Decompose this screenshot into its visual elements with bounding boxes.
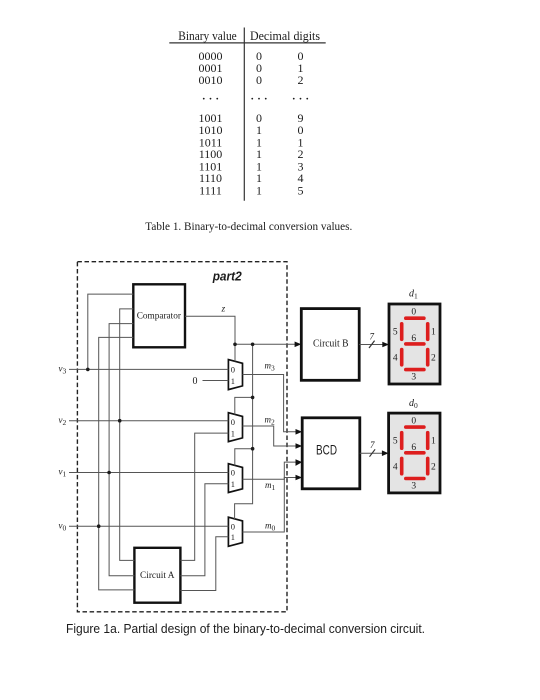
mux M0 [228,517,242,546]
svg-text:Decimal digits: Decimal digits [250,28,320,43]
svg-text:0: 0 [231,522,235,532]
bus slash BCD [370,449,376,456]
wire circuit A out1 to M2 [180,433,228,560]
svg-text:Figure 1a. Partial design of t: Figure 1a. Partial design of the binary-… [66,622,425,636]
seven-seg display d1 [389,304,440,384]
junction v0 [97,524,101,528]
svg-text:1: 1 [231,532,235,542]
arrow into BCD in1 [296,459,303,466]
wire circuit B to display d1 [359,344,384,346]
d1 segment 4 [400,350,404,365]
wire v2 to comparator and circuit A [120,309,135,561]
svg-text:6: 6 [411,443,416,453]
table column divider [243,28,245,201]
svg-text:1: 1 [431,328,436,338]
svg-text:0010: 0010 [199,73,223,87]
wire v3 input [69,368,228,370]
svg-text:Circuit B: Circuit B [313,339,349,350]
svg-text:4: 4 [393,462,398,472]
svg-text:1: 1 [256,183,262,197]
wire v1 input [69,472,228,474]
svg-text:3: 3 [411,481,416,491]
d0 segment 1 [426,433,430,449]
table rows [199,49,313,197]
wire m0 to BCD [243,478,297,533]
arrow into BCD in3 [296,429,303,435]
arrow into BCD in2 [296,443,303,449]
junction v2 [118,419,122,423]
svg-text:Binary value: Binary value [178,28,237,43]
arrow into circuit B [295,342,302,348]
circuit B [301,309,359,381]
svg-text:0: 0 [193,376,198,387]
wire BCD to display d0 [360,452,384,454]
svg-text:0: 0 [231,365,235,375]
svg-text:5: 5 [298,183,304,197]
svg-text:...: ... [292,88,312,104]
wire v3 to comparator [88,294,134,369]
svg-text:2: 2 [298,73,304,87]
dashed box part2 [77,262,287,612]
circuit A [134,548,180,603]
d0 segment 0 [406,425,424,429]
svg-text:4: 4 [393,353,398,363]
svg-text:6: 6 [411,334,416,344]
d0 segment 6 [406,451,424,455]
svg-text:Table 1. Binary-to-decimal con: Table 1. Binary-to-decimal conversion va… [145,219,352,233]
svg-text:...: ... [202,88,222,104]
mux M1 [228,464,242,493]
wire v0 input [69,525,228,527]
bus slash circuit B [369,341,375,348]
svg-text:0: 0 [231,468,235,478]
svg-text:Circuit A: Circuit A [140,571,175,581]
comparator [133,284,185,347]
wire v0 to comparator and circuit A [99,337,135,590]
d1 segment 0 [406,316,424,320]
svg-text:3: 3 [411,372,416,382]
svg-text:7: 7 [370,440,375,450]
svg-text:BCD: BCD [316,441,337,457]
svg-text:0: 0 [411,417,416,427]
arrow into display d1 [382,342,389,348]
junction v1 [107,471,111,475]
mux M3 [228,360,242,390]
d1 segment 5 [400,324,404,340]
svg-text:2: 2 [431,353,436,363]
svg-text:1111: 1111 [199,183,222,197]
svg-text:2: 2 [431,462,436,472]
svg-text:z: z [221,305,226,315]
d0 segment 2 [426,458,430,473]
wire m2 to BCD [243,426,297,446]
svg-text:...: ... [250,88,270,104]
svg-text:1: 1 [431,437,436,447]
wire constant 0 to M3 [203,380,229,382]
svg-text:0: 0 [256,73,262,87]
d1 segment 6 [406,342,424,346]
d0 segment 4 [400,458,404,473]
wire circuit A out2 to M1 [180,484,228,576]
junction chain top [251,343,255,347]
mux M2 [228,413,242,442]
junction z at M3 [233,343,237,347]
wire z to circuit B [235,343,297,345]
d1 segment 3 [406,368,424,372]
wire circuit A out3 to M0 [180,537,228,591]
svg-text:0: 0 [411,308,416,318]
junction v3 [86,368,90,372]
junction chain M1 [251,447,255,451]
seven-seg display d0 [389,413,440,493]
wire m1 to BCD [243,462,297,479]
wire z from comparator to mux M3 select [185,316,235,361]
svg-text:5: 5 [393,328,398,338]
svg-text:5: 5 [393,437,398,447]
d1 segment 1 [426,324,430,340]
d1 segment 2 [426,350,430,365]
d0 segment 5 [400,433,404,449]
wire select chain to M0 [235,449,253,519]
wire v2 input [69,420,228,422]
junction chain M2 [251,396,255,400]
svg-text:1: 1 [231,428,235,438]
svg-text:Comparator: Comparator [137,311,182,321]
d0 segment 3 [406,477,424,481]
table header rule [169,42,325,44]
wire v1 to comparator and circuit A [109,324,134,576]
svg-text:part2: part2 [212,269,242,283]
wire m3 to BCD [243,375,297,432]
svg-text:0: 0 [231,417,235,427]
BCD converter [302,418,360,489]
svg-text:1: 1 [231,479,235,489]
wire select chain to M1 [235,397,253,465]
svg-text:7: 7 [370,331,375,341]
arrow into BCD in0 [296,475,303,481]
svg-text:1: 1 [231,376,235,386]
wire select chain to M2 [235,344,253,414]
arrow into display d0 [382,450,389,456]
